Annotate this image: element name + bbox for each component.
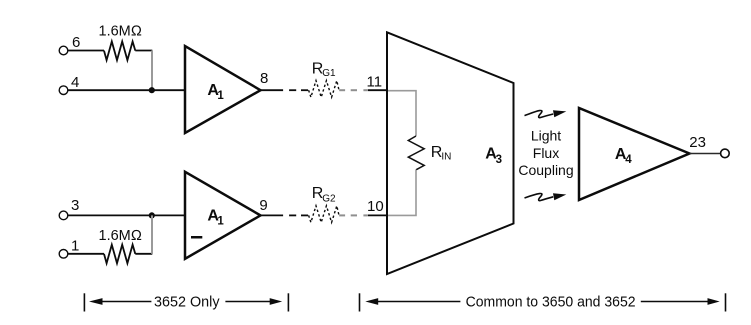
wire pin1 to resistor <box>68 253 104 255</box>
wire RIN top branch <box>388 91 416 136</box>
wire vertical to junction <box>151 51 153 91</box>
dimension line right segment (3652 Only) <box>225 301 276 303</box>
svg-text:Common to 3650 and 3652: Common to 3650 and 3652 <box>466 295 636 311</box>
wire pin3 to amplifier <box>68 214 185 216</box>
terminal pin 6 <box>59 46 68 55</box>
wire RIN bottom branch <box>388 170 416 216</box>
svg-text:Coupling: Coupling <box>518 162 573 178</box>
op-amp A1 (bottom) label <box>207 208 224 228</box>
op-amp A4 <box>579 108 690 200</box>
wire pin6 to resistor <box>68 50 104 52</box>
dimension arrow left (Common) <box>365 298 378 305</box>
svg-text:1.6MΩ: 1.6MΩ <box>99 228 142 244</box>
wire dash segment <box>339 214 345 216</box>
dimension bar left (Common) <box>359 293 361 311</box>
terminal pin 23 <box>721 149 730 158</box>
terminal pin 4 <box>59 86 68 95</box>
svg-text:8: 8 <box>260 70 268 87</box>
dimension bar right (3652 Only) <box>287 293 289 311</box>
wire dash segment <box>351 89 357 91</box>
dimension line left segment (3652 Only) <box>96 301 151 303</box>
block A3 label <box>485 146 502 166</box>
svg-text:G1: G1 <box>322 68 336 79</box>
dimension bar left (3652 Only) <box>83 293 85 311</box>
wire vertical to junction (bottom) <box>151 215 153 253</box>
dimension line right segment (Common) <box>641 301 714 303</box>
label RG2 <box>312 185 336 205</box>
wire resistor to corner (bottom) <box>135 253 152 255</box>
op-amp A1 (bottom) <box>185 172 261 259</box>
wire into pin 10 <box>368 214 388 216</box>
wire into pin 11 <box>368 89 388 91</box>
svg-text:4: 4 <box>625 154 632 166</box>
label RG1 <box>312 60 336 79</box>
wire pin4 to amplifier <box>68 89 185 91</box>
svg-text:11: 11 <box>367 73 383 90</box>
dimension line left segment (Common) <box>372 301 460 303</box>
resistor RIN <box>408 136 424 170</box>
dimension arrow right (Common) <box>708 298 720 305</box>
label RIN <box>431 144 452 163</box>
wire dash segment <box>351 214 357 216</box>
resistor 1.6Mohm (bottom) <box>104 245 135 264</box>
dimension arrow left (3652 Only) <box>89 298 103 305</box>
resistor RG1 (external, dashed) <box>309 81 339 98</box>
svg-text:G2: G2 <box>322 194 336 205</box>
op-amp A1 (top) label <box>207 82 224 102</box>
op-amp A1 (top) <box>185 46 261 133</box>
resistor RG2 (external, dashed) <box>309 206 339 223</box>
wire from pin 8 (solid) <box>260 89 283 91</box>
resistor 1.6Mohm (top) <box>104 42 135 61</box>
light flux coupling label <box>518 128 573 179</box>
svg-text:10: 10 <box>367 198 384 215</box>
svg-text:1: 1 <box>71 237 79 254</box>
terminal pin 3 <box>59 211 68 220</box>
dimension arrow right (3652 Only) <box>270 298 283 305</box>
junction node (top) <box>149 87 155 93</box>
svg-text:1: 1 <box>217 90 224 102</box>
svg-text:1: 1 <box>217 215 224 227</box>
op-amp A4 label <box>615 146 632 166</box>
svg-text:4: 4 <box>71 74 79 91</box>
wire dash segment <box>289 214 296 216</box>
svg-text:9: 9 <box>259 197 267 214</box>
light flux arrow (top) <box>525 110 567 117</box>
svg-text:3: 3 <box>71 197 79 214</box>
wire resistor to corner <box>135 50 152 52</box>
svg-text:Light: Light <box>531 128 561 144</box>
wire dash segment <box>339 89 345 91</box>
wire from pin 9 (solid) <box>260 214 283 216</box>
dimension bar right (Common) <box>725 293 727 311</box>
light flux arrow (bottom) <box>525 193 567 200</box>
svg-text:IN: IN <box>441 152 451 163</box>
inverting minus sign <box>191 236 202 239</box>
svg-text:3652 Only: 3652 Only <box>154 295 220 311</box>
wire A4 output <box>690 153 721 155</box>
svg-text:1.6MΩ: 1.6MΩ <box>99 24 142 40</box>
junction node (bottom) <box>149 212 155 218</box>
svg-text:3: 3 <box>496 154 502 166</box>
svg-text:Flux: Flux <box>533 145 559 161</box>
terminal pin 1 <box>59 250 68 259</box>
svg-text:23: 23 <box>689 134 706 151</box>
svg-text:6: 6 <box>72 34 80 51</box>
wire dash segment <box>289 89 296 91</box>
isolation block A3 <box>387 32 514 274</box>
